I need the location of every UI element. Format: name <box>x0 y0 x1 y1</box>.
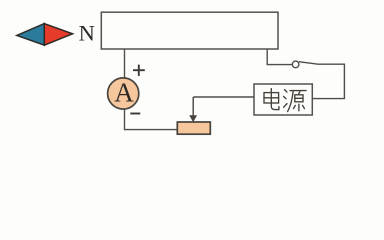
glyph 电 (dian) <box>264 89 279 110</box>
svg-text:A: A <box>114 78 134 108</box>
wire from ammeter to rheostat left end <box>125 109 178 129</box>
minus sign of ammeter <box>130 113 140 115</box>
coil box <box>101 12 278 49</box>
switch pivot <box>292 61 299 68</box>
ammeter A1 <box>108 78 139 109</box>
rheostat R <box>177 122 210 134</box>
magnet (red N half) <box>44 24 72 46</box>
svg-text:N: N <box>79 20 95 45</box>
wire from slider to power supply <box>193 96 254 98</box>
plus sign of ammeter <box>133 65 145 76</box>
switch blade <box>299 62 318 64</box>
glyph 源 (yuan) <box>284 90 306 112</box>
slider arrow onto rheostat <box>192 97 194 117</box>
wire from switch to power supply right side <box>312 64 344 98</box>
wire from coil box to ammeter <box>124 49 126 78</box>
power supply box <box>254 84 312 115</box>
wire from coil box down to switch <box>267 49 292 65</box>
magnet (blue S half) <box>17 24 45 46</box>
